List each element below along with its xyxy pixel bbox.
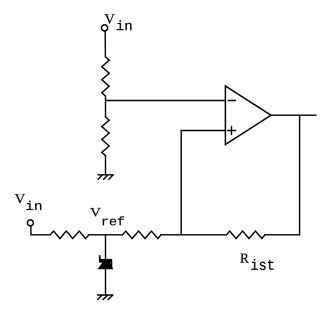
ground (zener) xyxy=(98,295,113,300)
zener diode D1 xyxy=(99,256,101,259)
wire Vref node to zener xyxy=(105,235,107,259)
wire Rist to right rail xyxy=(265,234,300,236)
op-amp minus symbol xyxy=(228,100,235,102)
wire R4 to Rist xyxy=(161,234,227,236)
op-amp U1 xyxy=(225,86,271,145)
op-amp plus symbol xyxy=(228,127,236,135)
wire op-amp output xyxy=(271,114,316,116)
wire top terminal to R1 xyxy=(104,31,106,57)
resistor R3 (series input) xyxy=(50,231,89,238)
wire op-amp non-inverting input feedback xyxy=(181,131,225,235)
label Vin (bottom left) xyxy=(15,194,41,210)
resistor R4 (series to feedback) xyxy=(123,231,162,238)
wire R2 to ground xyxy=(105,156,107,175)
resistor R2 (lower divider) xyxy=(102,117,109,156)
resistor Rist xyxy=(227,231,266,238)
resistor R1 (upper divider) xyxy=(102,57,109,96)
label Vref xyxy=(90,208,124,225)
wire zener to ground xyxy=(105,269,107,295)
wire R1 to R2 through node xyxy=(105,96,107,117)
ground (divider) xyxy=(98,175,113,180)
wire R3 to Vref node xyxy=(89,234,123,236)
wire output junction down right side xyxy=(299,115,301,235)
wire bottom terminal to R3 xyxy=(31,226,51,235)
terminal Vin (bottom left) xyxy=(27,220,33,226)
wire node to op-amp inverting input xyxy=(106,100,226,102)
terminal Vin (top) xyxy=(102,25,108,31)
label Vin (top) xyxy=(105,14,132,30)
label Rist xyxy=(240,254,273,270)
